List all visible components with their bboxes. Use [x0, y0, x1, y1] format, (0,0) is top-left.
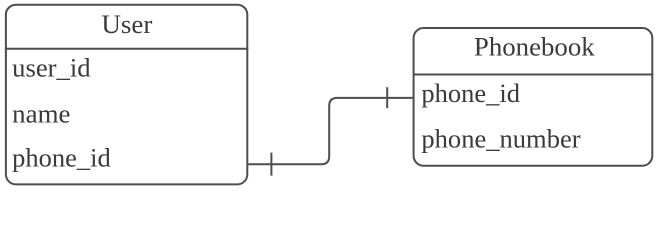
svg-text:phone_number: phone_number — [421, 125, 581, 154]
svg-text:phone_id: phone_id — [12, 143, 111, 172]
svg-text:user_id: user_id — [12, 54, 90, 83]
svg-text:Phonebook: Phonebook — [474, 32, 595, 61]
svg-text:phone_id: phone_id — [421, 79, 520, 108]
svg-text:User: User — [101, 10, 152, 39]
svg-text:name: name — [12, 99, 70, 128]
